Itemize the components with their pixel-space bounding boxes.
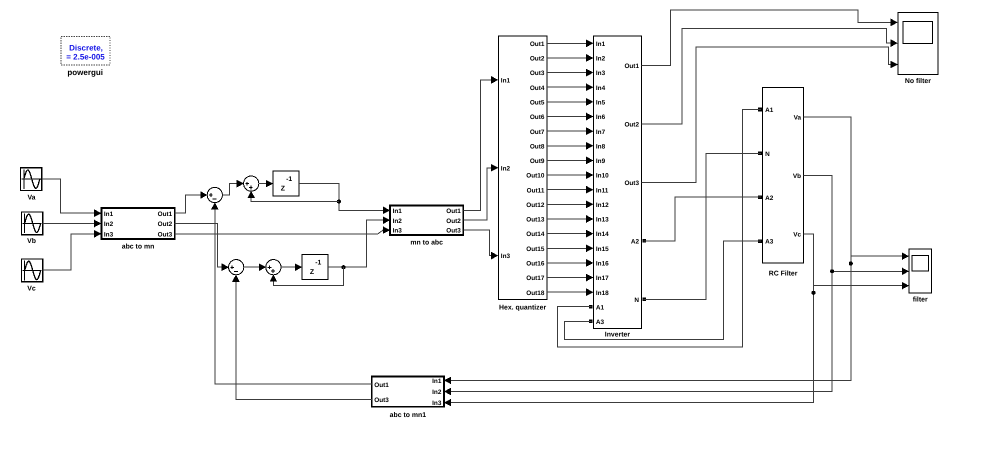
wire Va branch to filter scope input 1 [851,252,909,260]
scope No filter [898,12,938,74]
wire unit delay Z1 output to mn to abc In1 [299,184,390,215]
wire Hex Out17 to Inverter In17 [547,274,594,282]
svg-text:Out11: Out11 [527,187,545,194]
svg-text:Out14: Out14 [526,231,545,238]
svg-text:= 2.5e-005: = 2.5e-005 [66,52,105,61]
junction Va node [849,262,853,266]
svg-text:In2: In2 [393,218,403,225]
wire Hex Out11 to Inverter In11 [547,186,594,194]
svg-text:In18: In18 [596,290,609,297]
svg-text:Out3: Out3 [374,397,389,404]
wire Hex Out5 to Inverter In5 [547,98,594,106]
svg-text:Out3: Out3 [158,231,173,238]
svg-text:Vc: Vc [793,231,801,238]
wire RC Filter Vb to abc to mn1 In2 [444,175,832,395]
wire Inverter A3 to RC Filter A3 [565,241,761,339]
scope filter [909,249,931,293]
wire sum S3 to sum S4 [244,263,267,271]
svg-text:Out15: Out15 [526,246,545,253]
source Vb [22,212,43,235]
wire Vb branch to filter scope input 2 [832,268,909,276]
label No filter [905,78,931,85]
label RC Filter [769,270,798,277]
wire Vc to In3 [43,230,102,270]
svg-text:Hex. quantizer: Hex. quantizer [499,304,546,311]
svg-text:filter: filter [913,297,928,304]
wire Hex Out10 to Inverter In10 [547,171,594,179]
svg-text:Out12: Out12 [526,202,545,209]
svg-text:Va: Va [794,114,802,121]
svg-text:Out5: Out5 [530,99,545,106]
svg-text:In5: In5 [596,99,606,106]
svg-text:RC Filter: RC Filter [769,270,798,277]
wire unit delay Z2 output to mn to abc In2 [328,216,390,267]
svg-text:In17: In17 [596,275,609,282]
svg-text:In1: In1 [432,378,442,385]
svg-text:No filter: No filter [905,78,931,85]
wire Hex Out7 to Inverter In7 [547,127,594,135]
junction Vb node [830,269,834,273]
svg-text:mn to abc: mn to abc [410,239,443,246]
svg-text:In3: In3 [501,253,511,260]
wire Inverter Out3 to No filter scope input 3 [642,47,898,183]
wire Hex Out14 to Inverter In14 [547,230,594,238]
junction Z2 feedback node [342,265,346,269]
svg-text:Out13: Out13 [526,217,545,224]
svg-text:Discrete,: Discrete, [69,43,103,52]
wire Out1 to sum S1 [175,191,208,213]
svg-text:In9: In9 [596,158,606,165]
wire Hex Out4 to Inverter In4 [547,83,594,91]
label powergui [67,68,103,77]
label abc to mn [122,244,155,251]
sum S4 [266,260,281,275]
svg-text:-1: -1 [286,176,292,183]
svg-text:Va: Va [27,195,35,202]
svg-text:In4: In4 [596,85,606,92]
wire Vb to In2 [43,220,102,228]
wire sum S4 to unit delay Z2 [281,263,302,271]
wire Hex Out1 to Inverter In1 [547,40,594,48]
svg-text:Out10: Out10 [526,173,545,180]
source Vc [22,259,43,282]
svg-text:In3: In3 [393,228,403,235]
svg-text:Out6: Out6 [530,114,545,121]
junction Vc node [812,291,816,295]
svg-text:In2: In2 [432,389,442,396]
subsystem Hex quantizer [498,36,547,300]
sum S2 [244,176,259,191]
svg-text:Out2: Out2 [530,56,545,63]
wire Out3 to mn to abc In3 [175,226,390,234]
svg-text:In1: In1 [501,78,511,85]
svg-text:In16: In16 [596,261,609,268]
wire Hex Out13 to Inverter In13 [547,215,594,223]
wire Vc branch to filter scope input 3 [814,282,910,290]
wire Inverter A2 to RC Filter A2 [643,197,761,241]
sum S1 [207,187,222,202]
svg-text:In1: In1 [104,211,114,218]
wire Inverter A1 to RC Filter A1 [557,110,760,347]
wire mn to abc Out2 to Hex In2 [463,164,498,220]
wire RC Filter Vc to abc to mn1 In3 [444,234,814,407]
svg-text:Out1: Out1 [530,41,545,48]
wire abc to mn1 Out1 to sum S1 [211,202,372,384]
subsystem abc to mn1 [372,377,444,408]
svg-text:In3: In3 [432,400,442,407]
svg-text:Vb: Vb [793,173,801,180]
label Hex. quantizer [499,304,546,311]
wire Va to In1 [42,179,102,217]
svg-text:Out2: Out2 [624,121,639,128]
svg-text:Out16: Out16 [526,261,545,268]
svg-text:N: N [765,151,770,158]
subsystem Inverter [589,36,646,329]
wire sum S1 to sum S2 [222,180,244,195]
svg-text:In10: In10 [596,173,609,180]
wire mn to abc Out3 to Hex In3 [463,230,498,259]
subsystem RC Filter [758,88,803,263]
svg-text:In6: In6 [596,114,606,121]
svg-text:A2: A2 [765,195,774,202]
wire mn to abc Out1 to Hex In1 [463,76,498,210]
svg-text:N: N [634,297,639,304]
svg-text:Vb: Vb [27,238,36,245]
wire Z2 feedback to sum S4 [270,267,344,285]
wire Inverter N to RC Filter N [643,153,761,299]
label abc to mn1 [390,412,427,419]
wire Hex Out3 to Inverter In3 [547,69,594,77]
source Va [21,168,42,191]
label Vb [27,238,36,245]
label Va [27,195,35,202]
powergui block [61,36,110,65]
svg-text:In2: In2 [104,221,114,228]
label filter [913,297,928,304]
svg-text:Out1: Out1 [446,208,461,215]
wire Hex Out9 to Inverter In9 [547,157,594,165]
svg-text:Out3: Out3 [624,180,639,187]
svg-text:A1: A1 [765,107,774,114]
label Vc [27,286,36,293]
svg-text:In13: In13 [596,217,609,224]
svg-text:In1: In1 [596,41,606,48]
wire Z1 feedback to sum S2 [247,191,339,202]
svg-text:Out17: Out17 [526,275,545,282]
svg-text:Out1: Out1 [624,63,639,70]
svg-text:Out3: Out3 [446,228,461,235]
svg-text:In14: In14 [596,231,609,238]
svg-text:A2: A2 [631,238,640,245]
svg-text:In7: In7 [596,129,606,136]
svg-text:In15: In15 [596,246,609,253]
svg-text:-1: -1 [315,259,321,266]
wire Out2 to sum S3 [175,224,229,272]
junction Z1 feedback node [337,200,341,204]
svg-text:A3: A3 [765,239,774,246]
svg-text:Out18: Out18 [526,290,545,297]
svg-text:In11: In11 [596,187,609,194]
svg-text:In2: In2 [501,165,511,172]
wire Hex Out15 to Inverter In15 [547,244,594,252]
svg-text:Out1: Out1 [374,382,389,389]
svg-text:In8: In8 [596,143,606,150]
unit delay Z2 [302,254,328,279]
label Inverter [605,331,631,338]
wire RC Filter Va to abc to mn1 In1 [444,117,851,384]
svg-text:Out9: Out9 [530,158,545,165]
wire Hex Out16 to Inverter In16 [547,259,594,267]
svg-text:Out8: Out8 [530,143,545,150]
svg-text:Out4: Out4 [530,85,545,92]
svg-text:Out2: Out2 [446,218,461,225]
label mn to abc [410,239,443,246]
wire Hex Out6 to Inverter In6 [547,113,594,121]
svg-text:In1: In1 [393,208,403,215]
svg-text:A3: A3 [596,319,605,326]
svg-text:Out1: Out1 [158,211,173,218]
svg-text:abc to mn1: abc to mn1 [390,412,427,419]
subsystem mn to abc [390,205,463,235]
svg-text:abc to mn: abc to mn [122,244,155,251]
svg-text:Out7: Out7 [530,129,545,136]
sum S3 [229,260,244,275]
wire abc to mn1 Out3 to sum S3 [232,275,372,400]
wire Inverter Out1 to No filter scope input 1 [642,10,898,65]
svg-text:In3: In3 [104,231,114,238]
wire Inverter Out2 to No filter scope input 2 [642,29,898,124]
svg-text:In2: In2 [596,56,606,63]
wire Hex Out18 to Inverter In18 [547,288,594,296]
svg-text:Vc: Vc [27,286,36,293]
svg-text:In12: In12 [596,202,609,209]
svg-text:Out2: Out2 [158,221,173,228]
wire sum S2 to unit delay Z1 [259,180,274,188]
subsystem abc to mn [101,208,174,239]
svg-text:powergui: powergui [67,68,103,77]
svg-text:Out3: Out3 [530,70,545,77]
unit delay Z1 [273,171,299,196]
svg-text:In3: In3 [596,70,606,77]
wire Hex Out8 to Inverter In8 [547,142,594,150]
wire Hex Out12 to Inverter In12 [547,201,594,209]
wire Hex Out2 to Inverter In2 [547,54,594,62]
svg-text:Inverter: Inverter [605,331,631,338]
svg-text:A1: A1 [596,304,605,311]
